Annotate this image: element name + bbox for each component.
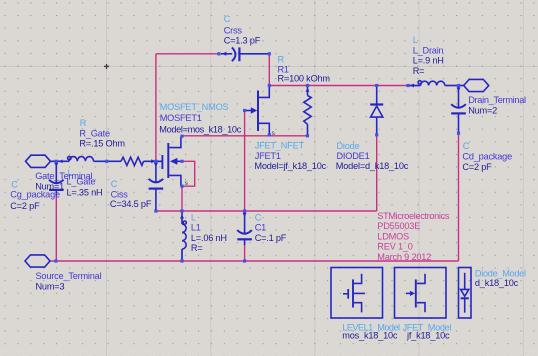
svg-text:JFET1: JFET1 — [255, 151, 281, 161]
svg-text:Drain_Terminal: Drain_Terminal — [468, 95, 526, 105]
model box LEVEL1_Model (MOSFET icon) — [331, 268, 383, 319]
wire: diode bottom riser x=376.7 — [376, 136, 378, 212]
junction: Cd_package tap on drain bus — [457, 84, 460, 87]
resistor R1 — [304, 86, 311, 136]
wire: MOSFET source riser x=182 — [181, 186, 183, 211]
svg-text:R=: R= — [413, 66, 425, 76]
svg-text:d_k18_10c: d_k18_10c — [475, 278, 519, 288]
junction: R1 pin 1 on drain bus — [306, 84, 309, 87]
junction: MOSFET source pin — [180, 185, 183, 188]
svg-text:R=100 kOhm: R=100 kOhm — [278, 74, 331, 84]
svg-text:Diode_Model: Diode_Model — [475, 269, 526, 279]
junction: L1 bottom pin on source bus — [180, 259, 183, 262]
junction: Cg_package tap at gate terminal — [55, 160, 58, 163]
svg-text:Cd_package: Cd_package — [462, 151, 512, 161]
port Source_Terminal Num=3 — [25, 255, 50, 267]
junction: JFET gate pin — [243, 109, 246, 112]
svg-text:R=.15 Ohm: R=.15 Ohm — [79, 139, 125, 149]
svg-text:MOSFET1: MOSFET1 — [160, 113, 202, 123]
svg-text:REV 1_0: REV 1_0 — [377, 242, 412, 252]
wire: drain bus y=85.5 — [269, 85, 464, 87]
port Gate_Terminal Num=1 — [26, 155, 51, 167]
node: drain net at Crss riser / JFET drain — [268, 84, 271, 87]
junction: Cd_package bottom pin — [457, 132, 460, 135]
port Drain_Terminal Num=2 — [464, 79, 489, 91]
capacitor Ciss — [149, 161, 164, 211]
diode DIODE1 — [370, 86, 383, 135]
wire: Crss top horizontal net — [156, 53, 219, 55]
junction: Crss pin 2 corner node — [268, 52, 271, 55]
svg-text:C: C — [224, 14, 231, 24]
svg-text:C1: C1 — [255, 222, 266, 232]
transistor MOSFET1 (MOSFET_NMOS) — [156, 137, 182, 187]
svg-text:L_Drain: L_Drain — [413, 46, 444, 56]
svg-text:Crss: Crss — [224, 25, 243, 35]
capacitor Cg_package — [49, 161, 64, 195]
wire: Cg_package bottom lead to source bus — [55, 195, 57, 261]
inductor L1 — [180, 211, 186, 261]
svg-text:C: C — [11, 179, 18, 189]
svg-text:C: C — [255, 213, 262, 223]
svg-text:Source_Terminal: Source_Terminal — [36, 271, 102, 281]
svg-text:Gate_Terminal: Gate_Terminal — [35, 171, 92, 181]
wire: L1 bottom lead to source bus — [181, 250, 183, 261]
junction: L1 top pin on inner bus — [180, 209, 183, 212]
svg-text:Model=d_k18_10c: Model=d_k18_10c — [336, 161, 409, 171]
svg-text:March 9 2012: March 9 2012 — [377, 252, 431, 262]
svg-text:C: C — [111, 179, 118, 189]
svg-text:C=34.5 pF: C=34.5 pF — [110, 199, 152, 209]
capacitor C1 — [237, 211, 252, 245]
svg-text:Model=jf_k18_10c: Model=jf_k18_10c — [254, 161, 326, 171]
junction: DIODE1 anode pin — [375, 133, 378, 136]
transistor JFET1 (JFET_NFET) — [245, 87, 270, 135]
junction: MOSFET bulk pin — [180, 160, 183, 163]
wire: MOSFET drain to JFET source and R1 (y=135.8) — [182, 135, 308, 137]
svg-text:LDMOS: LDMOS — [377, 231, 409, 241]
svg-text:L=.06 nH: L=.06 nH — [191, 233, 227, 243]
junction: Cg_package pin 2 on source bus — [54, 259, 57, 262]
wire: Cd_package riser x=458.5 — [458, 134, 460, 262]
svg-text:jf_k18_10c: jf_k18_10c — [406, 331, 450, 341]
svg-text:C=.1 pF: C=.1 pF — [255, 233, 287, 243]
junction: L_Drain pin 1 on drain bus — [406, 84, 409, 87]
svg-text:L: L — [413, 35, 418, 45]
svg-text:L=.9 nH: L=.9 nH — [413, 56, 444, 66]
svg-text:C=2 pF: C=2 pF — [10, 201, 40, 211]
model box Diode_Model (diode icon) — [459, 268, 472, 319]
junction: C1 bottom pin on source bus — [243, 259, 246, 262]
svg-text:mos_k18_10c: mos_k18_10c — [342, 331, 398, 341]
svg-text:R: R — [80, 118, 87, 128]
model box JFET_Model (JFET icon) — [395, 268, 447, 319]
svg-text:R_Gate: R_Gate — [79, 129, 110, 139]
wire: gate row net y=161.3 — [51, 160, 162, 162]
inductor L_Drain — [408, 81, 464, 88]
junction: JFET source pin — [268, 133, 271, 136]
svg-text:C=2 pF: C=2 pF — [462, 162, 492, 172]
resistor R_Gate — [121, 157, 155, 165]
junction: L_Gate / R_Gate node — [105, 160, 108, 163]
svg-text:C: C — [463, 141, 470, 151]
svg-text:JFET_NFET: JFET_NFET — [255, 141, 305, 151]
junction: Ciss pin 2 on inner bus — [154, 209, 157, 212]
junction: R1 pin 2 node — [306, 134, 309, 137]
svg-text:Num=2: Num=2 — [468, 105, 497, 115]
origin cross marker — [104, 64, 109, 69]
wire: gate-node riser to Crss (vertical x=155.9) — [155, 54, 157, 162]
wire: inner source bus y=211 — [156, 210, 377, 212]
svg-text:Model=mos_k18_10c: Model=mos_k18_10c — [159, 124, 241, 134]
wire: Crss right riser down to drain net — [268, 55, 270, 85]
wire: MOSFET bulk-source loop — [183, 161, 195, 186]
junction: Crss pin 1 on top net — [217, 52, 220, 55]
svg-text:R=: R= — [191, 243, 203, 253]
svg-text:L=.35 nH: L=.35 nH — [67, 188, 103, 198]
wire: JFET gate riser x=244.6 — [244, 111, 246, 212]
wire: source terminal bus y=261 — [50, 260, 459, 262]
svg-text:L1: L1 — [191, 222, 201, 232]
svg-text:Ciss: Ciss — [111, 189, 129, 199]
wire: C1 bottom lead to source bus — [244, 244, 246, 261]
junction: MOSFET drain pin — [180, 135, 183, 138]
junction: C1 top pin / JFET gate riser on inner bus — [243, 209, 246, 212]
svg-text:PD55003E: PD55003E — [377, 221, 420, 231]
capacitor Cd_package — [451, 86, 466, 134]
capacitor Crss — [221, 47, 269, 61]
svg-text:DIODE1: DIODE1 — [337, 151, 370, 161]
svg-text:C=1.3 pF: C=1.3 pF — [224, 35, 261, 45]
svg-text:STMicroelectronics: STMicroelectronics — [377, 211, 450, 221]
junction: DIODE1 cathode on drain bus — [375, 84, 378, 87]
inductor L_Gate — [58, 156, 93, 163]
svg-text:Num=3: Num=3 — [36, 281, 65, 291]
svg-text:Diode: Diode — [337, 141, 360, 151]
svg-text:R: R — [278, 55, 285, 65]
svg-text:MOSFET_NMOS: MOSFET_NMOS — [160, 102, 229, 112]
svg-text:Cg_package: Cg_package — [10, 190, 60, 200]
node: MOSFET gate / Ciss / Crss riser — [154, 160, 157, 163]
svg-text:L: L — [191, 213, 196, 223]
